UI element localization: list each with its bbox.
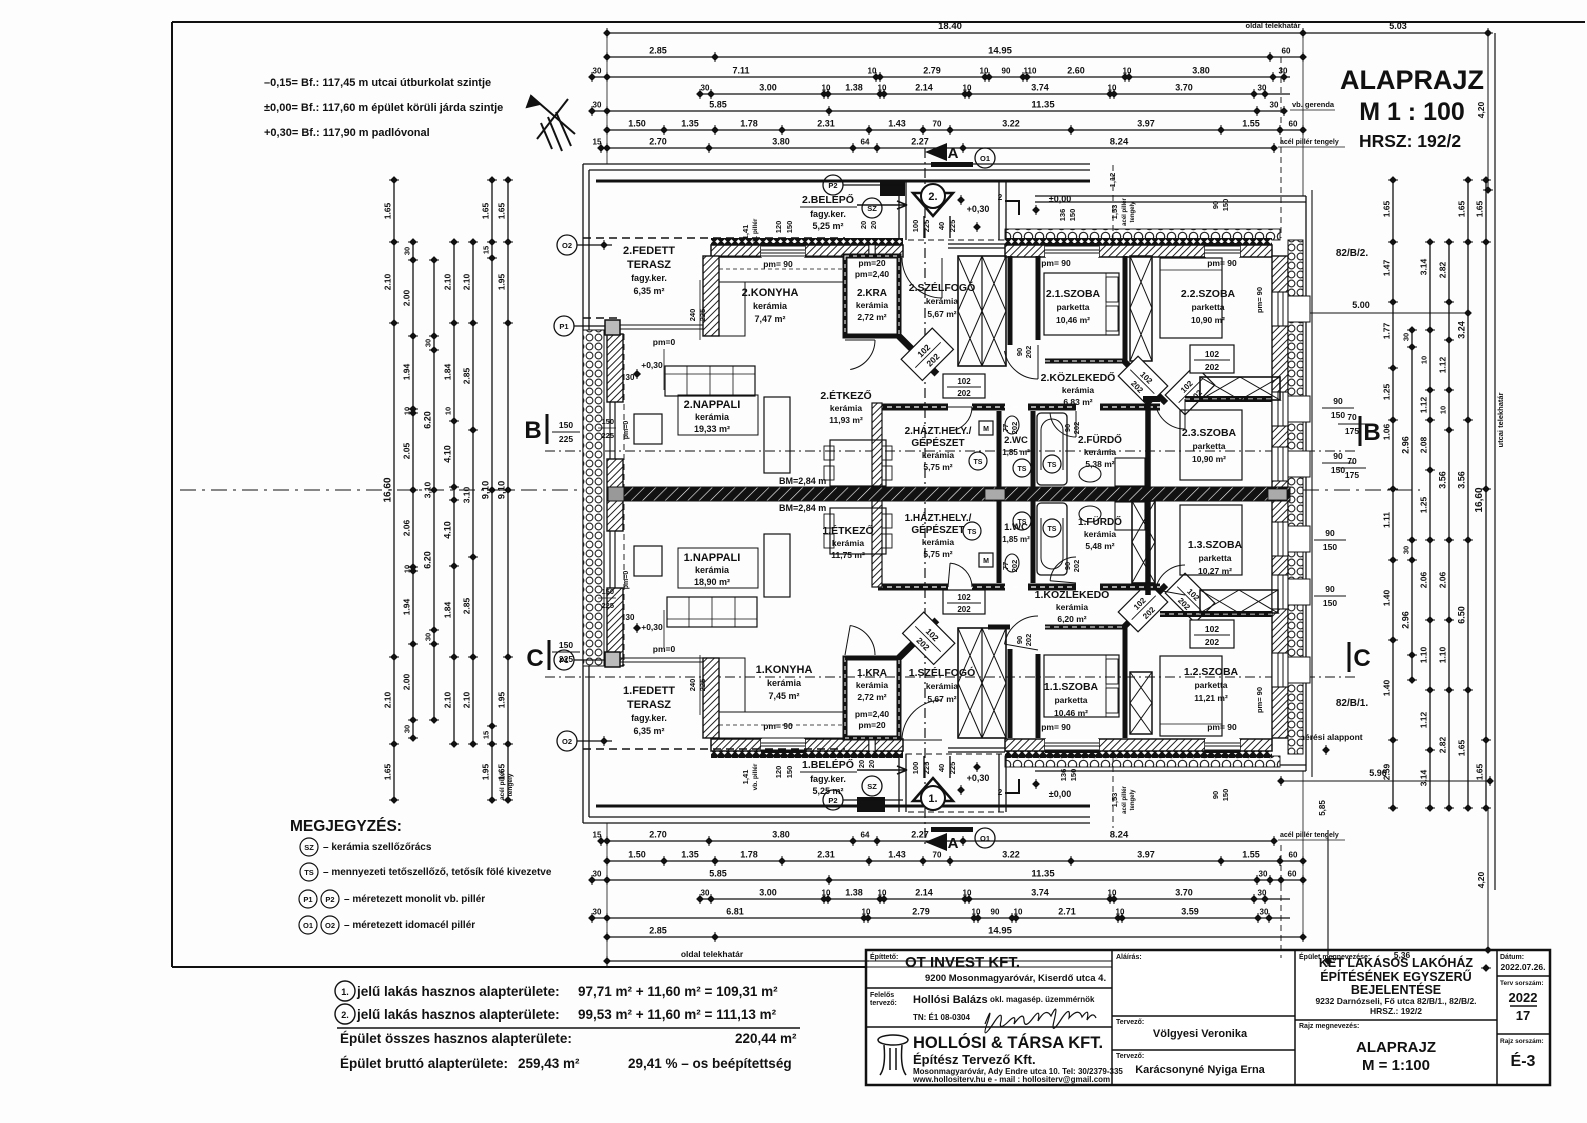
- svg-text:+0,30: +0,30: [641, 360, 663, 370]
- svg-text:1.50: 1.50: [628, 119, 646, 129]
- svg-text:1.25: 1.25: [1382, 383, 1392, 400]
- svg-text:5,48 m²: 5,48 m²: [1085, 541, 1114, 551]
- svg-text:6,83 m²: 6,83 m²: [1063, 397, 1092, 407]
- TS marker TS lower c: [1043, 519, 1061, 537]
- legend row O1 O2: [299, 916, 317, 934]
- level mark +-0,00 bottom: [1032, 780, 1040, 788]
- svg-text:kerámia: kerámia: [856, 300, 888, 310]
- svg-text:5,67 m²: 5,67 m²: [927, 309, 956, 319]
- svg-text:3.59: 3.59: [1181, 907, 1199, 917]
- svg-text:SZ: SZ: [304, 843, 314, 852]
- eaves outline bottom right wing: [1035, 764, 1306, 766]
- svg-text:vb. gerenda: vb. gerenda: [1292, 100, 1335, 109]
- svg-text:30: 30: [593, 67, 602, 76]
- window top kitchen: [761, 243, 805, 257]
- svg-text:1.38: 1.38: [845, 83, 863, 93]
- svg-text:3.80: 3.80: [772, 137, 790, 147]
- svg-text:kerámia: kerámia: [753, 301, 788, 311]
- kitchen counter upper: [719, 256, 845, 282]
- svg-text:7,47 m²: 7,47 m²: [754, 314, 785, 324]
- svg-text:6,35 m²: 6,35 m²: [633, 286, 664, 296]
- svg-text:2.82: 2.82: [1438, 736, 1448, 753]
- svg-text:6.81: 6.81: [726, 907, 744, 917]
- svg-text:pm= 90: pm= 90: [1207, 722, 1237, 732]
- svg-text:3.97: 3.97: [1137, 119, 1155, 129]
- svg-text:2.82: 2.82: [1438, 261, 1448, 278]
- window right 6: [1272, 653, 1288, 687]
- svg-text:pm=20: pm=20: [858, 720, 885, 730]
- svg-text:30: 30: [701, 84, 710, 93]
- porch bottom outline: [906, 754, 1006, 812]
- dimension chain right chain 1: [1382, 176, 1399, 812]
- svg-text:3.80: 3.80: [1192, 66, 1210, 76]
- signature Hollosi Balazs: [985, 1009, 1096, 1033]
- svg-text:P1: P1: [559, 656, 568, 665]
- door tag 102/202 szelfogo lower (rotated): [903, 612, 955, 664]
- terrace 2 floor edge: [619, 324, 711, 326]
- svg-text:136: 136: [1059, 769, 1068, 782]
- svg-text:jelű lakás hasznos alapterület: jelű lakás hasznos alapterülete:: [356, 984, 560, 999]
- eaves outline top: [583, 163, 1090, 165]
- svg-text:10: 10: [1116, 908, 1125, 917]
- svg-text:77: 77: [1001, 562, 1010, 570]
- bathtub upper: [1037, 413, 1067, 485]
- svg-text:Tervező:: Tervező:: [1116, 1019, 1144, 1026]
- svg-text:+0,30: +0,30: [967, 773, 990, 783]
- exterior wall bottom pier C (hatched): [1005, 739, 1045, 751]
- svg-text:10: 10: [444, 407, 453, 415]
- svg-text:10: 10: [972, 908, 981, 917]
- svg-text:2.10: 2.10: [462, 691, 472, 708]
- svg-text:99,53 m² + 11,60 m² = 111,13 m: 99,53 m² + 11,60 m² = 111,13 m²: [578, 1007, 777, 1022]
- room 2.3 north wall: [1185, 396, 1272, 402]
- svg-text:18,90 m²: 18,90 m²: [694, 577, 730, 587]
- svg-text:2.85: 2.85: [462, 367, 472, 384]
- section mark A top: [925, 143, 947, 161]
- svg-text:2.FEDETT: 2.FEDETT: [623, 245, 675, 257]
- svg-text:150: 150: [1221, 199, 1230, 212]
- svg-text:2.06: 2.06: [402, 519, 412, 536]
- svg-text:1.BELÉPŐ: 1.BELÉPŐ: [802, 758, 854, 771]
- svg-text:9232 Darnózseli, Fő utca 82/B/: 9232 Darnózseli, Fő utca 82/B/1., 82/B/2…: [1315, 996, 1476, 1006]
- svg-text:2.10: 2.10: [383, 691, 393, 708]
- hall wall upper (south of rooms): [878, 404, 948, 411]
- svg-text:10: 10: [868, 67, 877, 76]
- party wall: [608, 487, 1290, 501]
- svg-text:parketta: parketta: [1056, 302, 1089, 312]
- svg-text:60: 60: [1288, 870, 1297, 879]
- wall kitchen west upper (hatched): [703, 256, 719, 336]
- svg-text:1.43: 1.43: [888, 850, 906, 860]
- entry arrow 2.: [913, 193, 953, 216]
- svg-text:Építész Tervező Kft.: Építész Tervező Kft.: [913, 1052, 1036, 1067]
- svg-text:2.27: 2.27: [911, 830, 929, 840]
- svg-text:30: 30: [1279, 67, 1288, 76]
- svg-text:2,72 m²: 2,72 m²: [857, 692, 886, 702]
- svg-text:tengely: tengely: [1130, 789, 1136, 811]
- svg-text:1.KÖZLEKEDŐ: 1.KÖZLEKEDŐ: [1035, 588, 1110, 601]
- svg-text:150: 150: [1221, 789, 1230, 802]
- svg-text:2.10: 2.10: [443, 691, 453, 708]
- svg-text:136: 136: [1058, 209, 1067, 222]
- wall szelfogo east upper: [1008, 256, 1013, 345]
- svg-text:pm= 90: pm= 90: [763, 721, 793, 731]
- eaves outline bottom: [583, 822, 1090, 824]
- svg-text:1.77: 1.77: [1382, 322, 1392, 339]
- svg-text:1.65: 1.65: [1382, 200, 1392, 217]
- svg-text:TS: TS: [1018, 466, 1027, 473]
- svg-text:– méretezett idomacél pillér: – méretezett idomacél pillér: [344, 920, 475, 931]
- window bottom kamra small slot: [869, 739, 875, 751]
- svg-text:Épület bruttó alapterülete:: Épület bruttó alapterülete:: [340, 1056, 508, 1071]
- svg-text:5,36: 5,36: [1394, 950, 1411, 960]
- svg-text:fagy.ker.: fagy.ker.: [810, 774, 846, 784]
- dimension chain left chain 16,60: [383, 176, 400, 804]
- svg-text:7.11: 7.11: [732, 66, 749, 76]
- svg-text:M = 1:100: M = 1:100: [1362, 1057, 1430, 1074]
- svg-text:1,53: 1,53: [1110, 205, 1119, 220]
- dining table lower: [830, 508, 886, 554]
- entry direction arrow top: [857, 201, 907, 209]
- porch top outline: [906, 182, 1006, 240]
- svg-text:64: 64: [861, 138, 870, 147]
- svg-text:5.85: 5.85: [709, 869, 727, 879]
- svg-text:kerámia: kerámia: [926, 681, 958, 691]
- svg-text:90: 90: [1325, 528, 1335, 538]
- svg-text:O2: O2: [562, 241, 572, 250]
- exterior wall bottom pier B (hatched): [805, 739, 869, 751]
- svg-text:202: 202: [1072, 422, 1081, 435]
- svg-text:fagy.ker.: fagy.ker.: [631, 713, 667, 723]
- svg-text:1.: 1.: [341, 987, 349, 997]
- svg-text:kerámia: kerámia: [695, 412, 730, 422]
- armchair nappali 1: [634, 546, 662, 576]
- svg-text:30: 30: [1259, 870, 1268, 879]
- porch bottom side walls: [898, 754, 900, 812]
- svg-text:4.10: 4.10: [443, 521, 453, 539]
- svg-text:10: 10: [878, 889, 887, 898]
- door arc kamra lower: [850, 626, 875, 656]
- svg-text:175: 175: [1345, 470, 1359, 480]
- SZ marker top: [862, 198, 882, 218]
- svg-text:60: 60: [1289, 120, 1298, 129]
- svg-text:1,85 m²: 1,85 m²: [1002, 535, 1030, 544]
- svg-text:2.2.SZOBA: 2.2.SZOBA: [1181, 288, 1236, 300]
- pantry 1.KRA walls: [845, 658, 899, 738]
- svg-text:A: A: [948, 835, 959, 852]
- sofa nappali 2: [665, 366, 755, 396]
- svg-text:+0,30: +0,30: [967, 204, 990, 214]
- svg-text:2.KRA: 2.KRA: [857, 288, 887, 299]
- svg-text:1.38: 1.38: [845, 888, 863, 898]
- corner door diagonal upper: [899, 336, 937, 374]
- right top dim 4.20: [1487, 33, 1489, 190]
- svg-text:5,75 m²: 5,75 m²: [923, 549, 952, 559]
- svg-text:15: 15: [482, 731, 491, 739]
- svg-text:10: 10: [1108, 84, 1117, 93]
- washing machine lower: [979, 553, 993, 567]
- svg-text:97,71 m² + 11,60 m² = 109,31 m: 97,71 m² + 11,60 m² = 109,31 m²: [578, 984, 778, 999]
- svg-text:225: 225: [698, 679, 707, 692]
- svg-text:11,75 m²: 11,75 m²: [831, 550, 865, 560]
- porch top side walls: [898, 182, 900, 240]
- dimension chain right chain 6: [1475, 176, 1492, 812]
- svg-text:BM=2,84 m: BM=2,84 m: [779, 476, 826, 486]
- svg-text:150: 150: [601, 587, 614, 596]
- svg-text:1.84: 1.84: [443, 601, 453, 618]
- svg-text:1.65: 1.65: [1457, 200, 1467, 217]
- svg-text:82/B/2.: 82/B/2.: [1336, 248, 1368, 259]
- pantry 2.KRA walls: [845, 256, 899, 336]
- svg-text:7,45 m²: 7,45 m²: [768, 691, 799, 701]
- svg-text:202: 202: [1010, 422, 1019, 435]
- svg-text:jelű lakás hasznos alapterület: jelű lakás hasznos alapterülete:: [356, 1007, 560, 1022]
- toilet lower: [1005, 554, 1019, 572]
- svg-text:30: 30: [593, 908, 602, 917]
- svg-text:C: C: [1353, 645, 1370, 672]
- level diamond +0,30 bottom porch: [973, 763, 981, 771]
- door tag 102/202 hall upper: [1190, 345, 1234, 373]
- page frame top border: [172, 21, 1585, 23]
- kitchen counter lower: [719, 712, 845, 738]
- svg-text:6.20: 6.20: [423, 411, 433, 429]
- entry door sidelight bottom: [948, 747, 1005, 749]
- svg-text:10: 10: [878, 84, 887, 93]
- svg-text:TS: TS: [974, 459, 983, 466]
- svg-text:10: 10: [1123, 67, 1132, 76]
- svg-text:3.80: 3.80: [772, 830, 790, 840]
- level mark +-0,00 top: [1032, 206, 1040, 214]
- svg-text:mérési alappont: mérési alappont: [1297, 732, 1362, 742]
- svg-text:20: 20: [867, 760, 876, 768]
- svg-text:Karácsonyné Nyiga Erna: Karácsonyné Nyiga Erna: [1135, 1064, 1265, 1076]
- svg-text:30: 30: [1258, 84, 1267, 93]
- svg-text:ALAPRAJZ: ALAPRAJZ: [1356, 1039, 1436, 1056]
- svg-text:pm=0: pm=0: [653, 337, 676, 347]
- svg-text:1.43: 1.43: [888, 119, 906, 129]
- exterior wall bottom pier A (hatched): [711, 739, 761, 751]
- svg-text:30: 30: [1258, 889, 1267, 898]
- svg-text:Felelős: Felelős: [870, 992, 894, 999]
- svg-text:11.35: 11.35: [1031, 869, 1055, 880]
- svg-text:202: 202: [1024, 346, 1033, 359]
- svg-text:3.00: 3.00: [759, 83, 777, 93]
- svg-text:240: 240: [688, 679, 697, 692]
- dimension chain bottom chain 5.85/11.35: [588, 869, 1307, 886]
- section line C-C: [545, 676, 1356, 678]
- svg-text:6.20: 6.20: [423, 551, 433, 569]
- svg-text:90: 90: [1015, 636, 1024, 644]
- wall kitchen west lower (hatched): [703, 658, 719, 738]
- window left nappali 1: [603, 531, 605, 588]
- svg-text:1.12: 1.12: [1438, 356, 1448, 373]
- svg-text:2022: 2022: [1509, 990, 1538, 1005]
- svg-text:3.24: 3.24: [1457, 321, 1467, 339]
- svg-text:120: 120: [774, 221, 783, 234]
- dimension chain top chain 2.70: [593, 137, 1278, 154]
- svg-text:17: 17: [1516, 1008, 1530, 1023]
- svg-text:pm= 90: pm= 90: [1255, 687, 1264, 713]
- svg-text:202: 202: [1205, 637, 1219, 647]
- window left nappali 2: [603, 402, 605, 459]
- svg-text:1.78: 1.78: [740, 850, 758, 860]
- svg-text:2.96: 2.96: [1401, 436, 1411, 454]
- svg-text:90: 90: [1002, 67, 1011, 76]
- svg-text:2.27: 2.27: [911, 137, 929, 147]
- wall room2.1 west upper: [1036, 256, 1041, 340]
- bed room 2.2: [1160, 258, 1222, 338]
- svg-text:102: 102: [1205, 624, 1219, 634]
- svg-text:30: 30: [1402, 333, 1411, 341]
- svg-text:150: 150: [1331, 410, 1345, 420]
- svg-text:2.71: 2.71: [1058, 907, 1076, 917]
- bed room 2.1: [1044, 273, 1119, 335]
- svg-text:11,93 m²: 11,93 m²: [829, 415, 863, 425]
- right bottom dim 4.20: [1487, 808, 1489, 950]
- page frame left border: [171, 22, 173, 967]
- bed room 2.3: [1180, 410, 1242, 480]
- svg-text:100: 100: [911, 220, 920, 233]
- svg-text:2.96: 2.96: [1401, 611, 1411, 629]
- svg-text:acél pillér: acél pillér: [1122, 785, 1128, 813]
- svg-text:Rajz megnevezés:: Rajz megnevezés:: [1299, 1023, 1359, 1030]
- window top room 2.1: [1045, 243, 1099, 257]
- svg-text:11,21 m²: 11,21 m²: [1194, 693, 1228, 703]
- svg-text:202: 202: [1024, 634, 1033, 647]
- entry door sidelight top: [948, 243, 1005, 245]
- svg-text:1.35: 1.35: [681, 850, 699, 860]
- window right 3: [1272, 447, 1288, 481]
- wet room wall c lower: [1031, 501, 1036, 583]
- svg-text:1.50: 1.50: [628, 850, 646, 860]
- dimension chain bottom chain 2.70: [593, 830, 1278, 847]
- svg-text:2.00: 2.00: [402, 289, 412, 306]
- armchair nappali 2: [634, 414, 662, 444]
- svg-text:30: 30: [403, 725, 412, 733]
- svg-text:www.hollositerv.hu e - mail: www.hollositerv.hu e - mail : hollositer…: [912, 1075, 1110, 1084]
- basin upper: [1079, 466, 1101, 482]
- svg-text:kerámia: kerámia: [922, 537, 954, 547]
- svg-text:5,85: 5,85: [1318, 800, 1327, 816]
- svg-text:pm=2,40: pm=2,40: [855, 269, 890, 279]
- svg-text:B: B: [524, 417, 541, 444]
- legend row TS: [300, 863, 318, 881]
- svg-text:1.SZÉLFOGÓ: 1.SZÉLFOGÓ: [909, 666, 976, 679]
- kamra-etkezo wall upper: [845, 334, 899, 338]
- door arc furdo lower: [1050, 557, 1076, 581]
- exterior wall bottom insulation circles band: [1005, 756, 1280, 767]
- svg-text:1.KRA: 1.KRA: [857, 668, 887, 679]
- svg-text:1,12: 1,12: [1108, 173, 1117, 188]
- exterior wall left pillar c (hatched): [607, 588, 623, 666]
- right dim 5.96 horizontal: [1281, 780, 1490, 782]
- TS marker TS upper c: [1043, 455, 1061, 473]
- svg-text:1.55: 1.55: [1242, 119, 1260, 129]
- closet 1.3 szoba west: [1132, 501, 1155, 583]
- area summary divider line: [337, 1027, 800, 1029]
- svg-text:2.ÉTKEZŐ: 2.ÉTKEZŐ: [820, 389, 871, 402]
- door arc furdo upper: [1050, 413, 1076, 437]
- dashed extension line top right: [1280, 57, 1282, 238]
- svg-text:2.79: 2.79: [912, 907, 930, 917]
- window right 2: [1272, 392, 1288, 426]
- exterior wall top pier B2 (hatched): [875, 245, 903, 257]
- svg-text:220,44 m²: 220,44 m²: [735, 1031, 797, 1046]
- svg-text:9200 Mosonmagyaróvár, Kiserdő: 9200 Mosonmagyaróvár, Kiserdő utca 4.: [925, 973, 1106, 984]
- svg-text:oldal telekhatár: oldal telekhatár: [681, 949, 744, 959]
- svg-text:150: 150: [559, 420, 573, 430]
- title block outer frame: [866, 950, 1550, 1085]
- svg-text:kerámia: kerámia: [856, 680, 888, 690]
- svg-text:kerámia: kerámia: [922, 450, 954, 460]
- svg-text:P2: P2: [828, 796, 837, 805]
- pillar P1 bottom (grey): [605, 652, 620, 667]
- terrace 2 dashed bottom: [583, 317, 619, 319]
- svg-text:2: 2: [998, 193, 1003, 202]
- svg-text:1,41: 1,41: [741, 225, 750, 240]
- svg-text:TERASZ: TERASZ: [627, 259, 671, 271]
- basin lower: [1079, 506, 1101, 522]
- svg-text:70: 70: [933, 851, 942, 860]
- svg-text:1.10: 1.10: [1419, 646, 1429, 663]
- svg-text:2.06: 2.06: [1419, 571, 1429, 588]
- svg-text:225: 225: [559, 434, 573, 444]
- svg-text:1.06: 1.06: [1382, 423, 1392, 440]
- svg-text:P2: P2: [325, 895, 334, 904]
- svg-text:4,20: 4,20: [1476, 871, 1486, 888]
- svg-text:8.24: 8.24: [1110, 137, 1129, 148]
- svg-text:MEGJEGYZÉS:: MEGJEGYZÉS:: [290, 818, 402, 835]
- wall room1.1 west lower: [1036, 654, 1041, 738]
- svg-text:202: 202: [957, 389, 971, 398]
- svg-text:– kerámia szellőzőrács: – kerámia szellőzőrács: [323, 842, 432, 853]
- svg-text:150: 150: [601, 417, 614, 426]
- svg-text:150: 150: [1068, 209, 1077, 222]
- building axis dash line to right chains: [1303, 489, 1420, 491]
- level diamond nappali upper: [633, 370, 641, 378]
- terrace 1 floor edge: [619, 657, 711, 659]
- svg-text:2.06: 2.06: [1438, 571, 1448, 588]
- svg-text:2.85: 2.85: [649, 926, 667, 936]
- svg-text:150: 150: [785, 221, 794, 234]
- svg-text:2.85: 2.85: [649, 46, 667, 56]
- svg-text:1.95: 1.95: [481, 763, 491, 780]
- svg-text:pm=0: pm=0: [623, 571, 630, 590]
- svg-text:259,43 m²: 259,43 m²: [518, 1056, 580, 1071]
- svg-text:2.60: 2.60: [1067, 66, 1085, 76]
- svg-text:1.65: 1.65: [497, 202, 507, 219]
- title block vertical divider 3: [1496, 950, 1498, 1085]
- extension line right bottom: [1302, 771, 1304, 933]
- svg-text:18.40: 18.40: [938, 21, 962, 32]
- TS marker TS upper a: [969, 452, 987, 470]
- TS marker TS upper b: [1013, 459, 1031, 477]
- svg-text:102: 102: [957, 377, 971, 386]
- svg-text:150: 150: [1331, 465, 1345, 475]
- closet 1.2 szoba north: [1200, 590, 1278, 613]
- svg-text:10: 10: [1439, 406, 1448, 414]
- svg-text:120: 120: [774, 766, 783, 779]
- P1 marker top left: [554, 316, 574, 336]
- north arrow symbol: [527, 96, 575, 151]
- svg-text:30: 30: [1260, 908, 1269, 917]
- svg-text:5.85: 5.85: [709, 100, 727, 110]
- extension line left bottom: [606, 823, 608, 957]
- exterior wall bottom diamond band right: [1005, 751, 1272, 758]
- svg-text:70: 70: [933, 120, 942, 129]
- svg-text:30: 30: [424, 339, 433, 347]
- svg-text:1.: 1.: [928, 793, 937, 805]
